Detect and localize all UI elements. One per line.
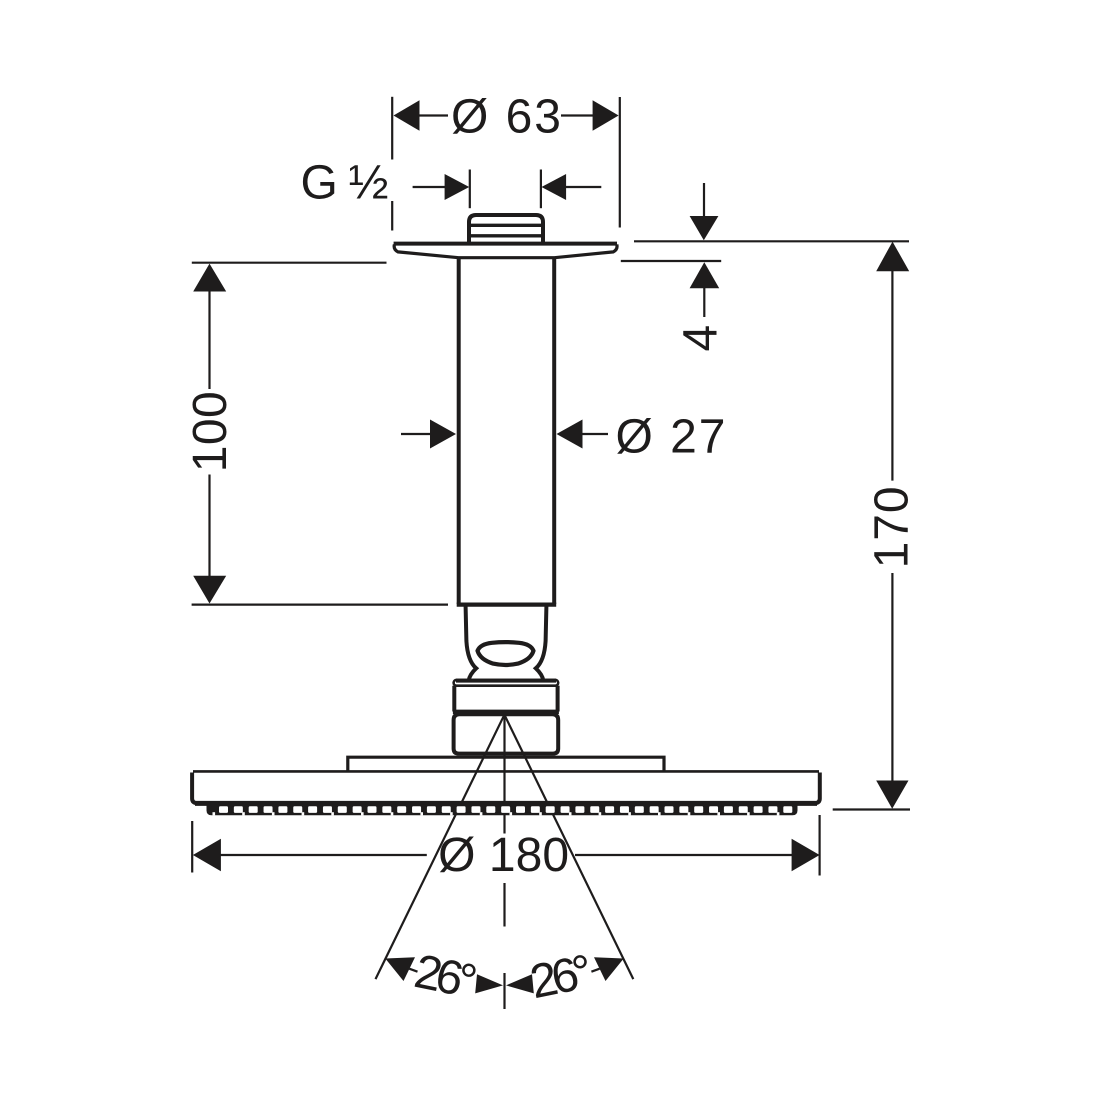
svg-text:Ø 180: Ø 180 xyxy=(438,829,569,882)
svg-text:170: 170 xyxy=(865,486,918,568)
svg-text:Ø 63: Ø 63 xyxy=(451,90,561,143)
svg-text:G ½: G ½ xyxy=(301,156,389,209)
svg-text:Ø 27: Ø 27 xyxy=(616,410,726,463)
svg-text:4: 4 xyxy=(674,325,727,352)
svg-text:100: 100 xyxy=(184,391,237,472)
